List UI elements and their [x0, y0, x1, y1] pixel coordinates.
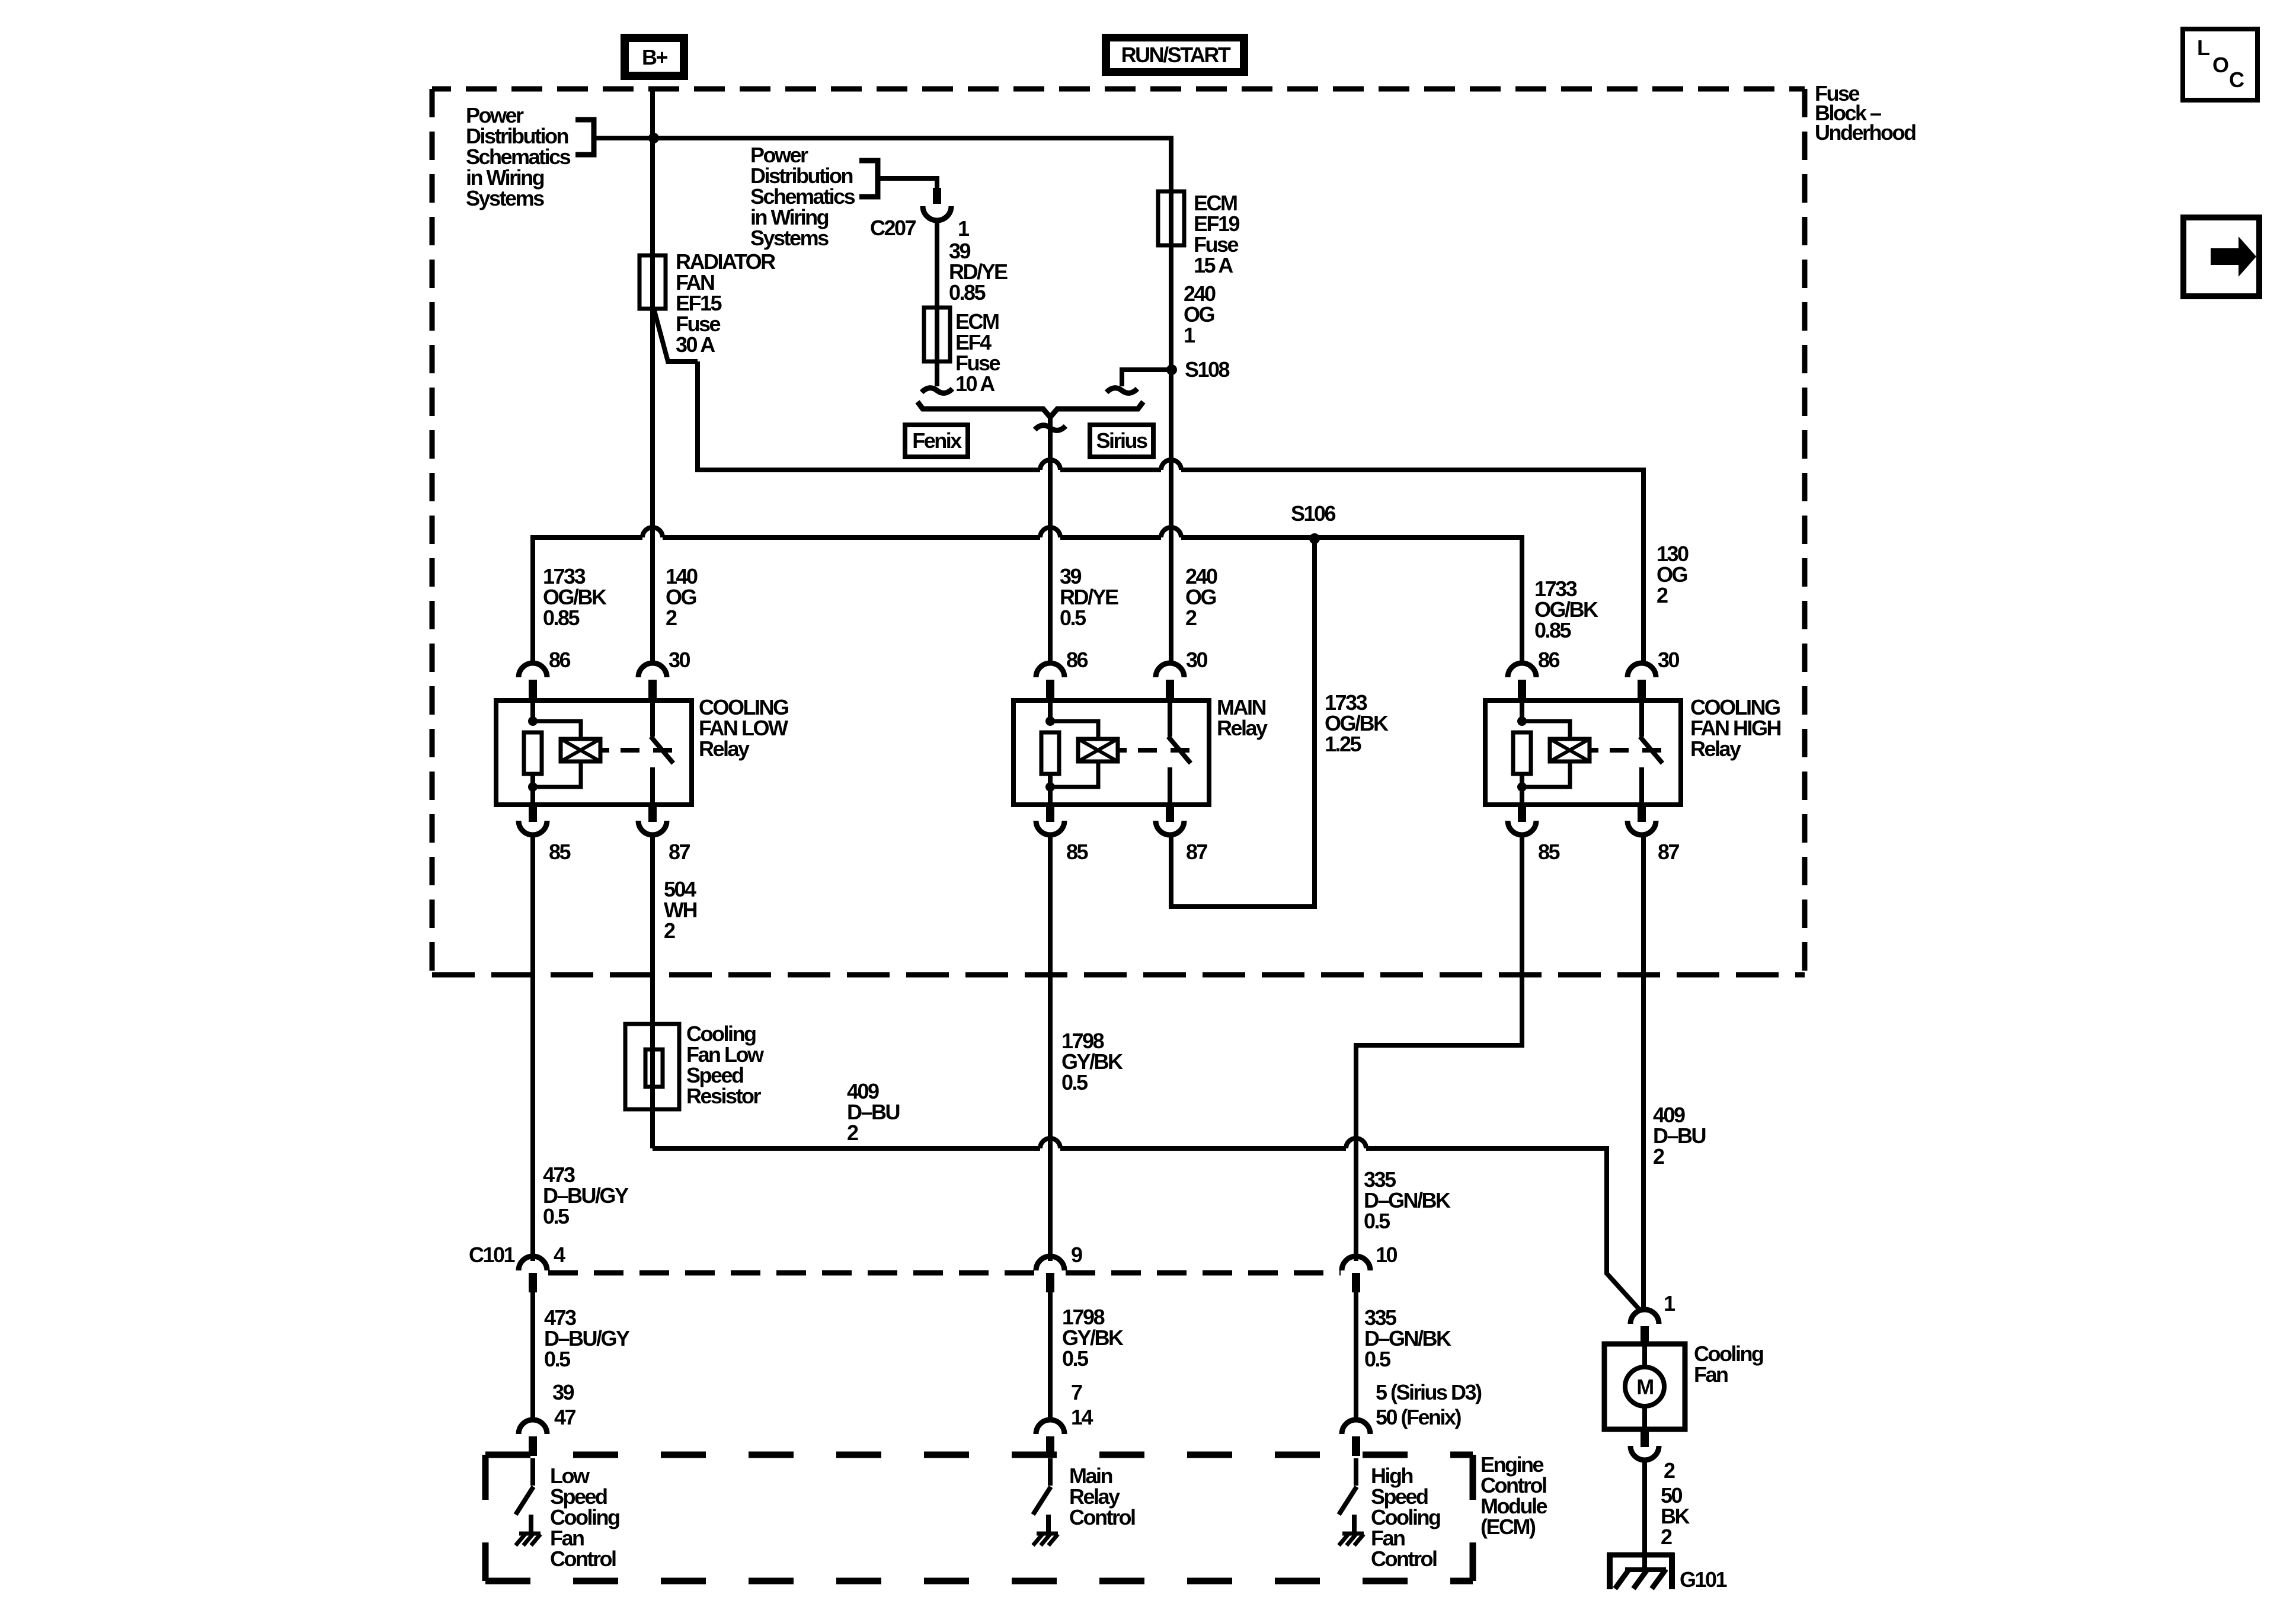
svg-text:1.25: 1.25 [1325, 732, 1362, 756]
hop over B+ wire on bus2 [642, 527, 663, 537]
connector cooling fan pin 2 [1641, 1429, 1649, 1447]
svg-text:4: 4 [554, 1243, 565, 1267]
relay MAIN pin 86 label [1066, 648, 1088, 672]
svg-text:Sirius: Sirius [1096, 428, 1147, 453]
svg-text:86: 86 [1066, 648, 1088, 672]
label circuit 1733 OG/BK 0.85 right [1534, 577, 1598, 642]
svg-text:C: C [2229, 68, 2244, 92]
fuse ECM EF4 10A [924, 308, 950, 361]
engine control module dashed box [485, 1452, 1473, 1458]
relay MAIN pin 85 label [1066, 840, 1089, 864]
label circuit 240 OG 1 [1184, 281, 1216, 347]
box Fenix [905, 425, 968, 457]
svg-text:0.5: 0.5 [1060, 606, 1086, 630]
svg-text:Relay: Relay [699, 737, 750, 761]
hop over MAIN86 wire on bus2 [1040, 527, 1060, 537]
svg-text:2: 2 [1657, 583, 1668, 607]
relay COOLING FAN LOW [496, 700, 692, 805]
hop over MAIN30 wire on bus1 [1161, 460, 1181, 470]
svg-text:C207: C207 [870, 216, 916, 240]
label C207 [870, 216, 916, 240]
label ECM EF19 fuse [1194, 191, 1240, 277]
label S108 [1185, 357, 1230, 382]
svg-text:87: 87 [1186, 840, 1208, 864]
wire 473 D-BU/GY below C101 [530, 1292, 535, 1422]
svg-text:Underhood: Underhood [1815, 120, 1916, 145]
svg-text:Control: Control [1069, 1505, 1135, 1529]
svg-text:S108: S108 [1185, 357, 1230, 382]
wire 409 D-BU 2 from HIGH relay pin 87 to cooling fan [1641, 836, 1646, 1312]
svg-text:30: 30 [1186, 648, 1208, 672]
relay COOLING FAN HIGH [1485, 700, 1681, 805]
svg-text:86: 86 [549, 648, 571, 672]
svg-text:1: 1 [1184, 323, 1195, 347]
pin 1 cooling fan [1664, 1291, 1675, 1315]
splice S108 [1166, 364, 1177, 375]
wire 409 D-BU 2 from resistor to cooling fan pin 1 [653, 1146, 1040, 1151]
label circuit 130 OG 2 [1657, 542, 1689, 607]
svg-text:2: 2 [666, 606, 677, 630]
relay COOLING FAN LOW pin 86 connector [519, 663, 547, 677]
relay COOLING FAN HIGH pin 86 connector [1508, 663, 1536, 677]
label radiator fan fuse [676, 249, 776, 357]
switch high speed cooling fan control + ground [1342, 1420, 1370, 1434]
wire 39 RD/YE 0.85 through EF4 fuse [935, 219, 939, 386]
label circuit 1733 OG/BK 1.25 [1325, 690, 1389, 756]
label circuit 473 upper [543, 1163, 629, 1228]
svg-text:30: 30 [669, 648, 690, 672]
ECM pin 5 Sirius D3 [1376, 1380, 1482, 1404]
relay COOLING FAN HIGH pin 87 label [1658, 840, 1680, 864]
relay MAIN pin 30 connector [1156, 663, 1184, 677]
label circuit 240 OG 2 [1185, 564, 1217, 630]
continuation curl on S108 branch [1107, 388, 1137, 393]
fuse ECM EF19 15A [1158, 191, 1184, 245]
wire 473 D-BU/GY from LOW relay pin 85 to C101 [530, 836, 535, 1261]
relay COOLING FAN HIGH name label [1690, 695, 1781, 761]
svg-text:1: 1 [958, 216, 970, 241]
svg-text:S106: S106 [1291, 501, 1336, 526]
relay COOLING FAN LOW pin 30 connector [638, 663, 667, 677]
pin 1 of C207 [958, 216, 970, 241]
wire 335 D-GN/BK below C101 [1354, 1292, 1358, 1422]
svg-text:10 A: 10 A [955, 372, 995, 396]
wire jog from EF15 fuse to bus toward HIGH relay pin30 [654, 311, 698, 361]
svg-text:87: 87 [669, 840, 690, 864]
svg-text:9: 9 [1071, 1243, 1082, 1267]
bus S106: MAIN relay output to LOW/HIGH relay coils [533, 537, 642, 665]
relay MAIN pin 87 label [1186, 840, 1208, 864]
resistor element [645, 1049, 663, 1087]
relay COOLING FAN LOW name label [699, 695, 788, 761]
bus from EF15 fuse to COOLING FAN HIGH relay pin 30 (130 OG) [698, 361, 1040, 470]
switch low speed cooling fan control + ground [519, 1420, 547, 1434]
svg-text:10: 10 [1376, 1243, 1398, 1267]
wire 240 OG from EF19 through S108 to MAIN relay pin 30 [1169, 188, 1173, 665]
label circuit 1798 upper [1061, 1029, 1123, 1094]
wire 1798 GY/BK from MAIN relay pin 85 to C101 [1048, 836, 1053, 1261]
relay COOLING FAN LOW pin 87 connector [648, 805, 657, 822]
label circuit 409 right [1653, 1103, 1706, 1169]
continuation arrow box [2183, 217, 2259, 296]
relay COOLING FAN HIGH pin 85 label [1538, 840, 1560, 864]
svg-text:0.5: 0.5 [1364, 1209, 1390, 1233]
wire branch from S108 to the left [1122, 370, 1172, 386]
svg-text:0.85: 0.85 [949, 280, 986, 305]
power node B+ box [621, 34, 688, 80]
svg-text:0.5: 0.5 [544, 1347, 571, 1371]
wire B+ down through radiator fan fuse to LOW relay pin 30 [650, 87, 655, 665]
box Sirius [1090, 425, 1153, 457]
svg-text:Systems: Systems [466, 186, 544, 210]
label S106 [1291, 501, 1336, 526]
label fuse block underhood [1815, 81, 1916, 145]
switch main relay control + ground [1036, 1420, 1064, 1434]
label cooling fan [1694, 1342, 1763, 1387]
ECM pin 14 [1071, 1405, 1093, 1429]
hop over MAIN30 wire on bus2 [1161, 527, 1181, 537]
relay MAIN pin 85 connector [1046, 805, 1054, 822]
brace joining Fenix/Sirius options [917, 402, 1143, 417]
svg-text:85: 85 [1538, 840, 1560, 864]
label power distribution 1 [466, 103, 571, 210]
svg-text:0.5: 0.5 [1062, 1346, 1089, 1371]
svg-text:50 (Fenix): 50 (Fenix) [1376, 1405, 1462, 1429]
svg-text:2: 2 [1664, 1458, 1675, 1483]
relay MAIN pin 86 connector [1036, 663, 1064, 677]
connector C101 pin 9 [1036, 1256, 1064, 1270]
connector C101 pin 10 [1342, 1256, 1370, 1270]
label G101 [1680, 1567, 1728, 1592]
label circuit 409 left [847, 1079, 900, 1145]
svg-text:O: O [2212, 53, 2228, 77]
label power distribution 2 [750, 143, 855, 250]
label circuit 335 upper [1364, 1167, 1451, 1233]
wire 1733 OG/BK 1.25 from MAIN relay pin 87 to S106 [1171, 539, 1315, 907]
svg-text:0.5: 0.5 [1364, 1347, 1391, 1371]
label C101 [469, 1243, 516, 1267]
svg-text:L: L [2197, 36, 2209, 60]
label circuit 140 OG 2 [666, 564, 698, 630]
svg-text:86: 86 [1538, 648, 1560, 672]
fuse RADIATOR FAN EF15 30A [639, 255, 666, 309]
splice S106 [1309, 533, 1320, 544]
svg-text:87: 87 [1658, 840, 1680, 864]
LOC reference box [2183, 29, 2257, 100]
svg-text:30 A: 30 A [676, 332, 715, 357]
wire 335 D-GN/BK from HIGH relay pin 85 to C101 [1356, 836, 1522, 1261]
power node RUN/START box [1102, 34, 1248, 76]
svg-text:47: 47 [554, 1405, 576, 1429]
svg-text:30: 30 [1658, 648, 1680, 672]
hop over 335 wire on 409 line [1346, 1138, 1366, 1148]
relay COOLING FAN LOW pin 30 label [669, 648, 690, 672]
relay COOLING FAN HIGH pin 85 connector [1518, 805, 1526, 822]
relay COOLING FAN HIGH pin 87 connector [1638, 805, 1646, 822]
relay COOLING FAN LOW pin 86 label [549, 648, 571, 672]
svg-text:Control: Control [1371, 1547, 1437, 1571]
relay MAIN pin 87 connector [1166, 805, 1174, 822]
connector C101 dashed line [548, 1270, 1035, 1276]
svg-text:Resistor: Resistor [686, 1084, 762, 1108]
relay COOLING FAN LOW pin 87 label [669, 840, 690, 864]
svg-text:C101: C101 [469, 1243, 516, 1267]
relay COOLING FAN HIGH pin 30 label [1658, 648, 1680, 672]
wire from brace to MAIN relay pin 86 [1048, 417, 1053, 665]
svg-text:Relay: Relay [1217, 716, 1268, 740]
label ECM EF4 fuse [955, 309, 1000, 396]
svg-text:Fenix: Fenix [912, 428, 962, 453]
svg-text:2: 2 [1661, 1525, 1672, 1549]
svg-text:Fan: Fan [1694, 1362, 1728, 1387]
svg-text:5 (Sirius D3): 5 (Sirius D3) [1376, 1380, 1482, 1404]
ECM pin 47 [554, 1405, 576, 1429]
svg-text:0.85: 0.85 [1534, 618, 1572, 642]
relay MAIN pin 30 label [1186, 648, 1208, 672]
continuation curl below brace [1035, 425, 1066, 431]
relay MAIN [1013, 700, 1209, 805]
svg-text:2: 2 [847, 1121, 858, 1145]
svg-text:14: 14 [1071, 1405, 1093, 1429]
label circuit 39 RD/YE 0.5 [1060, 564, 1118, 630]
svg-text:M: M [1636, 1375, 1653, 1399]
continuation curl below EF4 fuse [922, 388, 952, 393]
svg-text:B+: B+ [642, 45, 667, 69]
svg-text:Control: Control [550, 1547, 616, 1571]
wire 1798 GY/BK below C101 [1048, 1292, 1053, 1422]
ECM pin 50 Fenix [1376, 1405, 1462, 1429]
svg-text:1: 1 [1664, 1291, 1675, 1315]
ECM pin 7 [1071, 1380, 1082, 1404]
relay COOLING FAN HIGH pin 30 connector [1627, 663, 1656, 677]
svg-text:0.5: 0.5 [543, 1204, 570, 1228]
label circuit 50 BK 2 [1661, 1483, 1690, 1549]
hop over MAIN85 wire on 409 line [1040, 1138, 1060, 1148]
svg-text:7: 7 [1071, 1380, 1082, 1404]
svg-text:15 A: 15 A [1194, 253, 1233, 277]
label circuit 504 WH 2 [664, 877, 696, 943]
svg-text:(ECM): (ECM) [1480, 1515, 1536, 1539]
svg-text:2: 2 [1185, 606, 1197, 630]
label circuit 1798 lower [1062, 1305, 1124, 1371]
svg-text:Relay: Relay [1690, 737, 1741, 761]
relay COOLING FAN LOW pin 85 connector [529, 805, 537, 822]
pin 2 cooling fan [1664, 1458, 1675, 1483]
svg-text:85: 85 [1066, 840, 1089, 864]
wire from bracket 2 to connector C207 [878, 178, 937, 188]
label circuit 473 lower [544, 1305, 630, 1371]
fuse block underhood dashed border [432, 87, 1805, 92]
label circuit 39 RD/YE 0.85 [949, 239, 1008, 305]
label cooling fan low speed resistor [686, 1022, 765, 1108]
connector C207 [933, 188, 941, 204]
wire 504 WH 2 from LOW relay pin 87 through resistor [650, 836, 655, 1148]
junction B+ / feed wire [648, 133, 659, 143]
label engine control module ECM [1480, 1452, 1547, 1539]
relay MAIN name label [1217, 695, 1268, 740]
label circuit 1733 OG/BK 0.85 left [543, 564, 607, 630]
relay COOLING FAN HIGH pin 86 label [1538, 648, 1560, 672]
svg-text:39: 39 [552, 1380, 574, 1404]
svg-text:2: 2 [1653, 1144, 1664, 1169]
connector C101 pin 4 [519, 1256, 547, 1270]
svg-text:RUN/START: RUN/START [1121, 43, 1231, 67]
wire into G101 [1642, 1460, 1647, 1570]
svg-text:85: 85 [549, 840, 571, 864]
svg-text:Systems: Systems [750, 226, 829, 250]
cooling fan box [1604, 1344, 1685, 1429]
relay COOLING FAN LOW pin 85 label [549, 840, 571, 864]
svg-text:2: 2 [664, 918, 675, 943]
hop over MAIN86 wire on bus1 [1040, 460, 1060, 470]
wire B+ feed to ECM EF19 fuse [594, 138, 1171, 191]
wire 50 BK 2 to ground [1642, 1460, 1647, 1553]
label circuit 335 lower [1364, 1305, 1451, 1371]
bracket to Power Distribution Schematics 1 [575, 120, 594, 155]
svg-text:0.85: 0.85 [543, 606, 580, 630]
svg-text:0.5: 0.5 [1061, 1070, 1088, 1094]
resistor cooling fan low speed outer [625, 1024, 679, 1109]
bracket to Power Distribution Schematics 2 [859, 161, 878, 197]
connector cooling fan pin 1 [1630, 1310, 1659, 1324]
svg-text:G101: G101 [1680, 1567, 1728, 1592]
ECM pin 39 [552, 1380, 574, 1404]
